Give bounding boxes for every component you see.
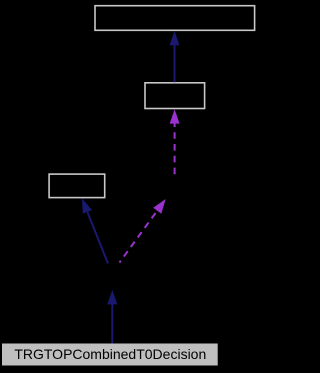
arrow A: solid inheritance edge box2 -> box1 bbox=[170, 31, 180, 82]
node TRGTOPCombinedT0Decision (current class, grey filled) bbox=[2, 344, 218, 366]
node box2 (middle) bbox=[145, 83, 205, 109]
arrow B: dashed usage edge (hidden node Y) -> box2 bbox=[170, 109, 180, 174]
arrow D: solid inheritance edge (hidden node X) -> box3, diagonal bbox=[82, 199, 108, 264]
node box3 (left) bbox=[49, 174, 105, 198]
svg-text:TRGTOPCombinedT0Decision: TRGTOPCombinedT0Decision bbox=[14, 346, 206, 362]
node box1 (top, empty-looking) bbox=[95, 6, 255, 31]
arrow E: solid inheritance edge TRGTOPCombinedT0Decision -> (hidden node X) bbox=[107, 290, 117, 344]
arrow C: dashed usage edge (hidden node X) -> (hidden node Y), diagonal bbox=[120, 199, 166, 263]
